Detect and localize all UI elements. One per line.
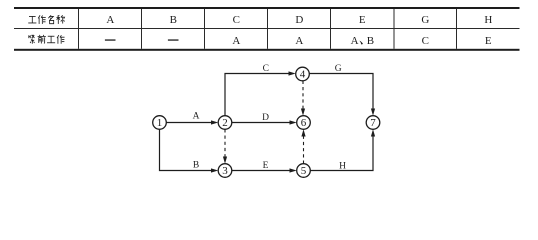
svg-text:A: A — [232, 35, 240, 47]
svg-text:G: G — [421, 14, 429, 26]
arrowhead H into node7 — [371, 129, 375, 136]
arrowhead dummy into node6 — [301, 129, 305, 136]
arrowhead dummy into node6 — [301, 109, 305, 116]
column divider 1 — [78, 9, 79, 49]
svg-text:E: E — [359, 14, 366, 26]
svg-text:E: E — [263, 161, 269, 171]
svg-text:B: B — [193, 160, 199, 170]
svg-text:5: 5 — [301, 165, 307, 177]
wire C: node2 up then right to node4 — [225, 74, 290, 116]
svg-text:B: B — [367, 35, 374, 47]
column divider 4 — [267, 9, 268, 49]
svg-text:4: 4 — [300, 69, 306, 81]
wire G: node4 right then down to node7 — [309, 74, 373, 111]
table bottom border — [14, 49, 520, 51]
svg-text:H: H — [484, 14, 492, 26]
header cell 工作名称 — [28, 15, 64, 24]
wire D: node2 to node6 — [232, 122, 291, 124]
svg-text:2: 2 — [222, 117, 228, 129]
arrowhead D into node6 — [290, 120, 297, 124]
header cell 紧前工作 — [29, 35, 65, 44]
arrowhead B into node3 — [211, 168, 218, 172]
svg-text:7: 7 — [370, 117, 376, 129]
svg-text:C: C — [233, 14, 240, 26]
node 6 — [297, 116, 311, 130]
svg-text:B: B — [170, 14, 177, 26]
svg-text:D: D — [295, 14, 303, 26]
wire B: node1 down then right to node3 — [160, 129, 213, 170]
cell A、B (row2 under E) — [351, 35, 374, 47]
node 1 — [153, 116, 167, 130]
column divider 3 — [204, 9, 205, 49]
svg-text:D: D — [262, 113, 269, 123]
arrowhead G into node7 — [371, 109, 375, 116]
node 4 — [296, 67, 310, 81]
cell dash under B — [168, 39, 179, 40]
cell dash under A — [105, 39, 116, 40]
arrowhead dummy into node3 — [223, 157, 227, 164]
svg-text:A: A — [295, 35, 303, 47]
svg-text:C: C — [422, 35, 429, 47]
table top border — [14, 7, 520, 9]
wire H: node5 right then up to node7 — [310, 135, 373, 171]
svg-text:E: E — [485, 35, 492, 47]
arrowhead E into node5 — [290, 168, 297, 172]
svg-text:H: H — [339, 161, 346, 171]
column divider 7 — [456, 9, 457, 49]
svg-text:A: A — [193, 112, 200, 122]
column divider 6 — [394, 9, 395, 49]
dummy wire node5 to node6 (dashed) — [303, 136, 305, 164]
svg-text:1: 1 — [157, 117, 163, 129]
dummy wire node4 to node6 (dashed) — [302, 81, 304, 110]
wire E: node3 to node5 — [232, 170, 291, 172]
column divider 5 — [330, 9, 331, 49]
arrowhead A into node2 — [211, 120, 218, 124]
arrowhead C into node4 — [289, 71, 296, 75]
node 5 — [297, 164, 311, 178]
svg-text:G: G — [335, 64, 342, 74]
wire A: node1 to node2 — [166, 122, 212, 124]
svg-text:A: A — [351, 35, 359, 47]
svg-text:A: A — [106, 14, 114, 26]
node 2 — [218, 116, 232, 130]
svg-text:6: 6 — [301, 117, 307, 129]
node 3 — [218, 164, 232, 178]
table row divider — [14, 28, 520, 29]
column divider 2 — [141, 9, 142, 49]
node 7 — [366, 116, 380, 130]
svg-text:C: C — [263, 64, 269, 74]
dummy wire node2 to node3 (dashed) — [224, 129, 226, 157]
svg-text:3: 3 — [222, 165, 228, 177]
